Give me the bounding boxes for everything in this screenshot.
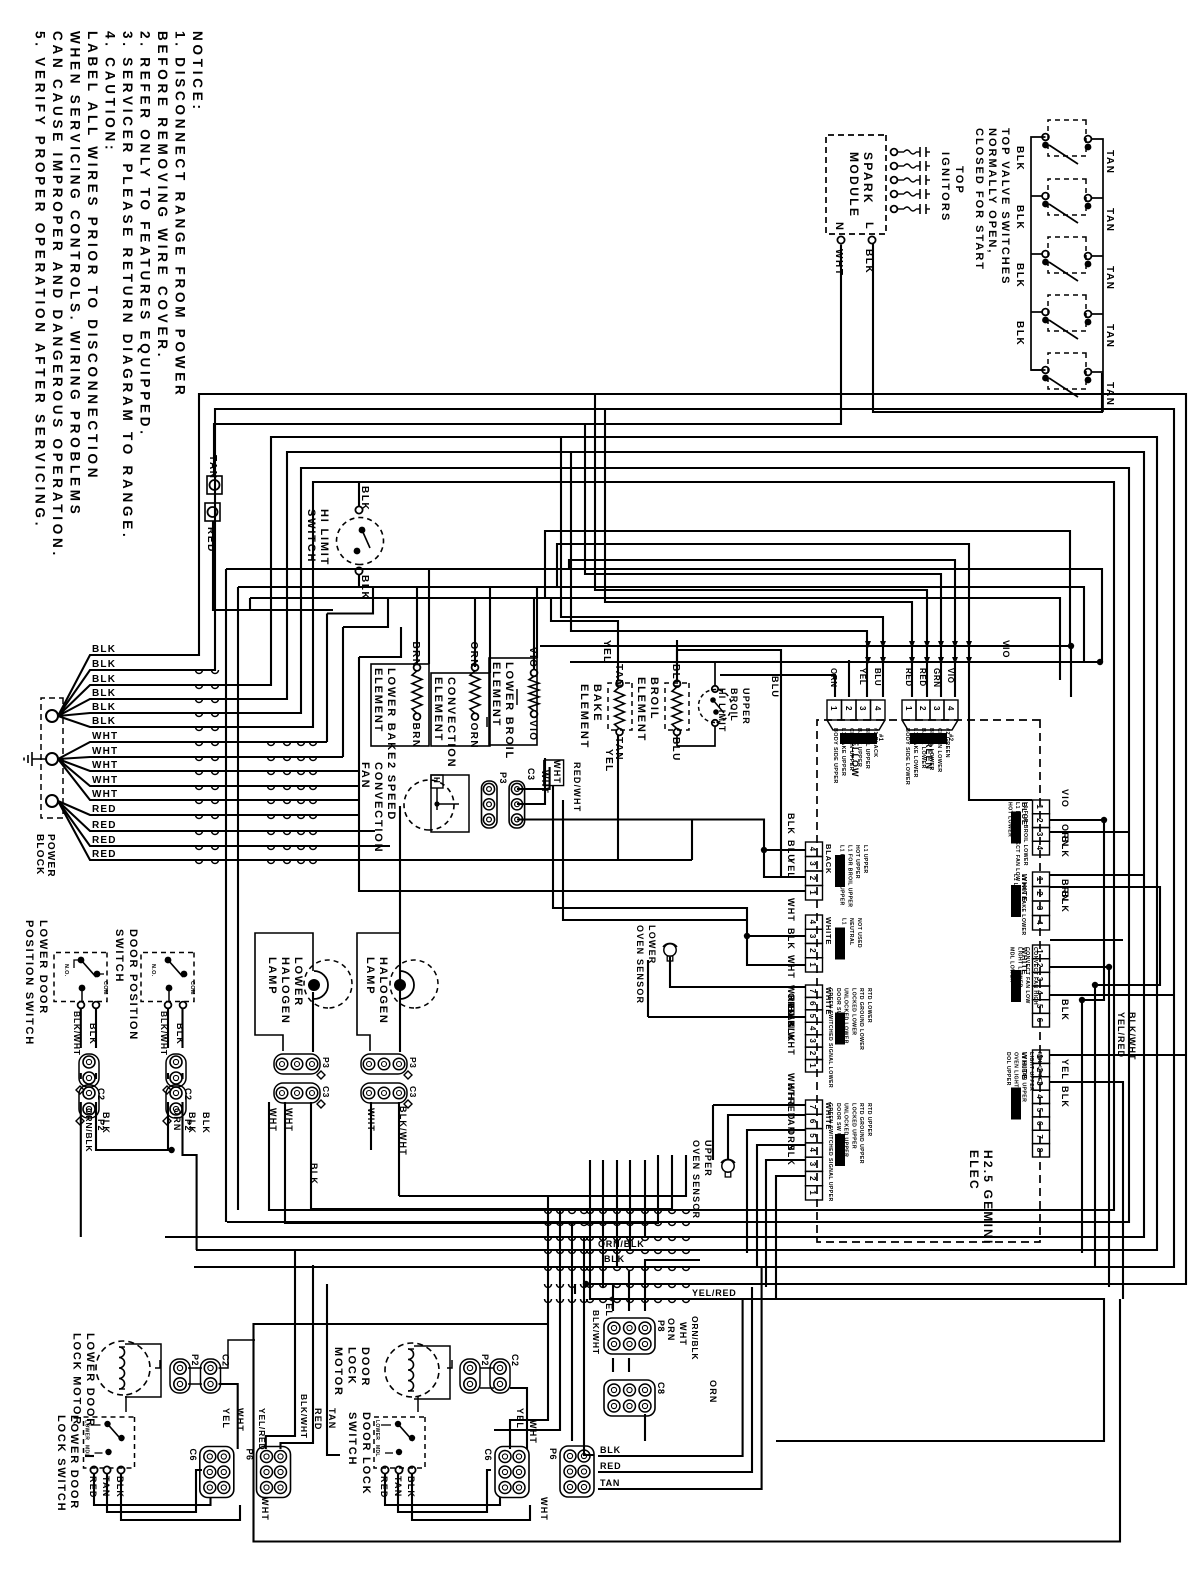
svg-text:SWITCH: SWITCH	[113, 929, 125, 983]
wire main loop 5	[110, 468, 1129, 1222]
connector P2 (lower door lock)	[170, 1359, 190, 1393]
svg-text:DOL UPPER: DOL UPPER	[1005, 1052, 1011, 1086]
svg-text:H2.5 GEMINI: H2.5 GEMINI	[981, 1150, 995, 1246]
svg-text:CONVECTION: CONVECTION	[445, 677, 457, 768]
svg-text:WHT: WHT	[366, 1108, 376, 1132]
connector J8 (WHITE 8-pin)	[1033, 1050, 1050, 1063]
svg-text:WHITE: WHITE	[824, 917, 833, 945]
svg-text:GRN: GRN	[932, 668, 941, 688]
svg-text:RED: RED	[92, 820, 117, 831]
svg-text:2: 2	[808, 1176, 817, 1181]
svg-text:L1 BAKE LOWER: L1 BAKE LOWER	[912, 728, 918, 778]
svg-text:WHT: WHT	[539, 1497, 549, 1521]
svg-text:HALOGEN: HALOGEN	[279, 957, 291, 1025]
connector P6	[560, 1446, 594, 1497]
svg-text:BLK/WHT: BLK/WHT	[398, 1106, 408, 1156]
svg-text:BLK: BLK	[1014, 263, 1025, 288]
svg-text:6: 6	[808, 1001, 817, 1006]
svg-text:WHT: WHT	[92, 746, 118, 757]
svg-text:BLK: BLK	[1060, 999, 1070, 1021]
svg-text:2. REFER ONLY TO FEATURES EQUI: 2. REFER ONLY TO FEATURES EQUIPPED.	[138, 31, 153, 438]
svg-text:1: 1	[808, 1190, 817, 1195]
svg-text:SWITCH: SWITCH	[346, 1412, 358, 1466]
svg-text:BLU: BLU	[770, 676, 780, 698]
svg-text:BLK: BLK	[359, 486, 370, 511]
svg-text:4: 4	[873, 706, 882, 711]
svg-text:WHT: WHT	[552, 760, 562, 784]
svg-text:LOWER DOOR: LOWER DOOR	[68, 1415, 80, 1510]
svg-text:OVEN SENSOR: OVEN SENSOR	[691, 1140, 701, 1219]
wire main loop 4	[110, 452, 1144, 1237]
lamp connector wires	[269, 1102, 307, 1210]
svg-text:2: 2	[808, 1051, 817, 1056]
svg-text:WHT: WHT	[260, 1497, 270, 1521]
lower halogen lamp	[255, 933, 313, 1051]
svg-text:WHEN SERVICING CONTROLS. WIRIN: WHEN SERVICING CONTROLS. WIRING PROBLEMS	[68, 31, 83, 518]
connector J3 (WHITE 7-pin)	[806, 985, 823, 997]
connector C3 (halogen)	[361, 1083, 407, 1103]
wire staircases into J1/J2	[691, 820, 693, 861]
svg-text:ELEC: ELEC	[967, 1150, 981, 1191]
svg-text:C6: C6	[188, 1449, 198, 1462]
svg-text:YEL: YEL	[604, 1296, 614, 1317]
svg-text:BLK/WHT: BLK/WHT	[1127, 1012, 1137, 1061]
connector P3 (fan)	[482, 781, 498, 828]
connector P2 (dps)	[166, 1085, 186, 1118]
wire main loop 1	[110, 394, 1186, 1284]
control board H2.5 GEMINI ELEC	[817, 720, 1040, 1242]
upper hi limit switch	[699, 690, 732, 723]
ground	[32, 758, 46, 760]
svg-text:1: 1	[808, 1063, 817, 1068]
svg-text:7: 7	[808, 1105, 817, 1110]
svg-text:RED: RED	[92, 804, 117, 815]
svg-text:L1: L1	[840, 918, 846, 925]
svg-text:DOOR POSITION: DOOR POSITION	[127, 929, 139, 1041]
wire BLU broil to J1	[677, 650, 781, 877]
svg-text:BLK: BLK	[92, 688, 116, 699]
svg-text:TOP: TOP	[953, 166, 965, 195]
svg-text:BLK: BLK	[1060, 836, 1070, 858]
svg-text:ORN: ORN	[666, 1318, 676, 1342]
svg-text:DOOR LOCK: DOOR LOCK	[360, 1412, 372, 1495]
door lock wires	[417, 1396, 419, 1412]
svg-text:#1 BLACK: #1 BLACK	[872, 728, 878, 758]
power block	[41, 698, 63, 818]
fan connector wires	[486, 717, 488, 727]
svg-text:BLK: BLK	[1060, 1086, 1070, 1108]
svg-text:CONVECTION: CONVECTION	[372, 762, 384, 853]
svg-text:LOCK SWITCH: LOCK SWITCH	[55, 1415, 67, 1512]
svg-text:MODULE: MODULE	[847, 152, 861, 218]
svg-text:YEL: YEL	[1060, 1059, 1070, 1080]
svg-text:BROIL: BROIL	[648, 677, 660, 720]
svg-text:1: 1	[808, 962, 817, 967]
svg-text:RED: RED	[92, 835, 117, 846]
svg-text:FAN: FAN	[359, 762, 371, 789]
svg-text:N.O.: N.O.	[63, 964, 69, 977]
wire main loop 3	[110, 437, 1157, 1250]
board right wires	[1050, 820, 1104, 1253]
svg-text:YEL/RED: YEL/RED	[692, 1288, 737, 1298]
svg-text:RTD GROUND UPPER: RTD GROUND UPPER	[858, 1103, 864, 1164]
svg-text:POWER: POWER	[45, 834, 56, 878]
svg-text:2: 2	[1035, 891, 1044, 896]
svg-text:CLEAN UPPER: CLEAN UPPER	[848, 728, 854, 771]
svg-text:2: 2	[844, 706, 853, 711]
hi limit switch	[337, 518, 384, 565]
svg-text:#2 GREEN: #2 GREEN	[944, 728, 950, 758]
lower door position switch	[54, 953, 107, 1002]
lower door lock motor	[96, 1341, 150, 1395]
svg-text:4: 4	[1035, 846, 1044, 851]
svg-text:IGNITORS: IGNITORS	[939, 152, 951, 223]
connector GREEN	[902, 700, 916, 720]
svg-text:SWITCH: SWITCH	[305, 509, 317, 563]
svg-text:4: 4	[946, 706, 955, 711]
svg-text:HOT LOWER: HOT LOWER	[1006, 802, 1012, 837]
svg-text:L1 FOR CONVECT FAN LOW: L1 FOR CONVECT FAN LOW	[1014, 802, 1020, 881]
svg-text:GREEN SWITCHED SIGNAL LOWER: GREEN SWITCHED SIGNAL LOWER	[827, 988, 833, 1088]
svg-text:BLK/WHT: BLK/WHT	[299, 1394, 309, 1439]
lower door lock switch terminals	[90, 1466, 97, 1473]
connector P3 (lower halogen)	[274, 1054, 320, 1074]
svg-text:GREEN SWITCHED SIGNAL UPPER: GREEN SWITCHED SIGNAL UPPER	[827, 1103, 833, 1202]
svg-text:MDL: MDL	[374, 1445, 380, 1457]
svg-text:YEL/RED: YEL/RED	[1116, 1012, 1126, 1058]
svg-text:4. CAUTION:: 4. CAUTION:	[103, 31, 118, 153]
svg-text:BLK: BLK	[92, 716, 116, 727]
svg-text:3. SERVICER PLEASE RETURN DIAG: 3. SERVICER PLEASE RETURN DIAGRAM TO RAN…	[120, 31, 135, 541]
svg-text:C3: C3	[408, 1086, 418, 1098]
svg-text:NOT USED: NOT USED	[856, 918, 862, 948]
connector J5 (BLUE 4-pin)	[1033, 800, 1050, 814]
svg-text:7: 7	[808, 989, 817, 994]
svg-text:UPPER: UPPER	[741, 688, 751, 725]
svg-text:UNLOCKED LOWER: UNLOCKED LOWER	[843, 988, 849, 1044]
svg-text:3: 3	[932, 706, 941, 711]
svg-text:ORN: ORN	[829, 668, 838, 688]
svg-text:3: 3	[858, 706, 867, 711]
wire crossing hops	[196, 670, 203, 674]
svg-text:TAN: TAN	[1104, 266, 1115, 291]
svg-text:C6: C6	[483, 1449, 493, 1462]
svg-text:YEL: YEL	[221, 1408, 231, 1429]
svg-text:TAN: TAN	[1104, 150, 1115, 175]
svg-text:YEL: YEL	[515, 1408, 525, 1429]
svg-text:7: 7	[1035, 1134, 1044, 1139]
svg-text:5: 5	[808, 1133, 817, 1138]
svg-text:COM: COM	[102, 981, 108, 995]
svg-text:HOT UPPER: HOT UPPER	[854, 845, 860, 879]
svg-text:HI LIMIT: HI LIMIT	[318, 509, 330, 566]
svg-text:WHT: WHT	[92, 760, 118, 771]
resistor: bake element	[608, 683, 632, 730]
svg-text:BROIL LOWER: BROIL LOWER	[928, 728, 934, 771]
svg-text:ELEMENT: ELEMENT	[578, 684, 590, 749]
svg-text:TAN: TAN	[613, 664, 624, 688]
board pin descriptions (fine print)	[840, 733, 877, 744]
svg-text:3: 3	[808, 934, 817, 939]
connector J2 (WHITE 4-pin)	[806, 915, 823, 929]
svg-text:BLK: BLK	[786, 813, 796, 835]
svg-text:ORN/BLK: ORN/BLK	[690, 1316, 700, 1360]
svg-text:LOCK: LOCK	[346, 1347, 358, 1385]
svg-text:P2: P2	[480, 1354, 490, 1366]
terminal RED	[205, 503, 220, 521]
wire element returns	[617, 735, 619, 860]
svg-text:2: 2	[1035, 818, 1044, 823]
svg-text:YEL: YEL	[786, 858, 796, 879]
svg-text:ORN: ORN	[172, 1108, 182, 1132]
svg-text:ELEMENT: ELEMENT	[372, 668, 384, 733]
svg-text:TAN: TAN	[207, 455, 218, 480]
svg-text:WHT: WHT	[92, 731, 118, 742]
lower door lock switch	[84, 1417, 135, 1468]
wire RED terminal to bus	[213, 521, 333, 610]
svg-text:MOTOR: MOTOR	[332, 1347, 344, 1397]
svg-text:1: 1	[808, 890, 817, 895]
svg-text:LOWER BAKE: LOWER BAKE	[385, 668, 397, 761]
connector C2 (lower dps)	[79, 1054, 99, 1087]
svg-text:BLK: BLK	[604, 1254, 625, 1264]
svg-text:3: 3	[1035, 832, 1044, 837]
svg-text:RED/WHT: RED/WHT	[572, 762, 582, 812]
svg-text:6: 6	[808, 1119, 817, 1124]
svg-text:BLK: BLK	[92, 644, 116, 655]
svg-text:L1 FOR BROIL UPPER: L1 FOR BROIL UPPER	[846, 845, 852, 907]
svg-text:ORN: ORN	[468, 723, 479, 749]
wire main loop 6	[110, 482, 1114, 1210]
svg-text:3: 3	[808, 1038, 817, 1043]
resistor: broil element	[665, 683, 689, 730]
svg-text:LIGHT UPPER: LIGHT UPPER	[1028, 1052, 1034, 1091]
svg-text:VIO: VIO	[946, 668, 955, 684]
halogen lamp	[357, 933, 400, 1051]
svg-text:LOWER: LOWER	[647, 925, 657, 965]
svg-text:P2: P2	[190, 1354, 200, 1366]
svg-text:4: 4	[808, 1148, 817, 1153]
svg-text:P3: P3	[498, 772, 508, 784]
svg-text:LOWER: LOWER	[374, 1420, 380, 1440]
svg-text:ORN/BLK: ORN/BLK	[84, 1108, 94, 1152]
svg-text:LIGHT LOWER: LIGHT LOWER	[1016, 947, 1022, 988]
svg-text:RED: RED	[600, 1461, 621, 1471]
resistor: convection element	[431, 673, 490, 746]
svg-text:N: N	[833, 222, 845, 230]
svg-text:RED: RED	[92, 849, 117, 860]
svg-text:L1 FAN BAKE LOWER: L1 FAN BAKE LOWER	[1020, 874, 1026, 936]
svg-text:BLOCK: BLOCK	[34, 834, 45, 876]
svg-text:BLU: BLU	[873, 668, 882, 686]
svg-text:BLU: BLU	[670, 737, 681, 762]
lower oven sensor	[664, 944, 676, 956]
door position switch	[141, 953, 194, 1002]
svg-text:NOTICE:: NOTICE:	[190, 31, 205, 113]
svg-text:1: 1	[829, 706, 838, 711]
svg-text:BROIL UPPER: BROIL UPPER	[864, 728, 870, 769]
svg-text:BLK: BLK	[786, 928, 796, 950]
door lock switch	[374, 1417, 425, 1468]
svg-text:OVEN LIGHT UPPER: OVEN LIGHT UPPER	[1013, 1052, 1019, 1109]
top ignitors (5 spark gaps)	[891, 149, 898, 156]
svg-text:MDL UPPER: MDL UPPER	[1036, 1052, 1042, 1086]
svg-text:CONVECT FAN HIGH: CONVECT FAN HIGH	[1032, 947, 1038, 1005]
svg-text:1: 1	[904, 706, 913, 711]
svg-text:VIO: VIO	[1001, 640, 1011, 659]
connector C2 (lower door lock)	[201, 1359, 221, 1393]
svg-text:LABEL ALL WIRES PRIOR TO DISCO: LABEL ALL WIRES PRIOR TO DISCONNECTION	[85, 31, 100, 481]
svg-text:L1 LOWER: L1 LOWER	[1012, 874, 1018, 904]
svg-text:BLK: BLK	[786, 1144, 796, 1166]
terminal TAN	[207, 476, 222, 494]
wire door lock enclosure loop	[254, 1299, 1121, 1542]
svg-text:BLU: BLU	[670, 664, 681, 689]
door lock feed wires	[510, 1196, 548, 1449]
svg-text:BODY SIDE UPPER: BODY SIDE UPPER	[832, 728, 838, 784]
wire hi limit right	[358, 575, 360, 587]
top valve switches NV1-NV2	[1048, 120, 1086, 156]
svg-text:1. DISCONNECT RANGE FROM POWER: 1. DISCONNECT RANGE FROM POWER	[173, 31, 188, 399]
svg-text:H: H	[432, 777, 441, 783]
svg-text:BODY SIDE LOWER: BODY SIDE LOWER	[904, 728, 910, 785]
svg-text:P6: P6	[548, 1448, 558, 1460]
connector C3 (lower halogen)	[274, 1083, 320, 1103]
svg-text:L: L	[863, 222, 875, 229]
svg-text:RED: RED	[918, 668, 927, 687]
svg-text:RTD UPPER: RTD UPPER	[866, 1103, 872, 1137]
svg-text:DOOR: DOOR	[359, 1347, 371, 1387]
svg-text:4: 4	[808, 920, 817, 925]
svg-text:BLK/WHT: BLK/WHT	[786, 1006, 796, 1056]
wire WHT spark module N to TAN terminal	[214, 245, 841, 476]
lower door lock wires	[125, 1396, 127, 1412]
svg-text:HI LIMIT: HI LIMIT	[717, 688, 727, 733]
svg-text:6: 6	[1035, 1018, 1044, 1023]
svg-text:BLK/WHT: BLK/WHT	[591, 1310, 601, 1355]
svg-text:BLACK: BLACK	[824, 844, 833, 874]
connector YELLOW	[827, 700, 842, 720]
svg-text:ORN: ORN	[708, 1380, 718, 1404]
svg-text:BRN: BRN	[410, 642, 421, 668]
svg-text:DOOR SW LOWER: DOOR SW LOWER	[835, 988, 841, 1039]
svg-text:BLK: BLK	[92, 674, 116, 685]
svg-text:YEL: YEL	[603, 749, 614, 773]
svg-text:L1 FOR BAKE UPPER: L1 FOR BAKE UPPER	[839, 845, 845, 906]
wire staircase links	[327, 587, 373, 614]
svg-text:3: 3	[808, 861, 817, 866]
svg-text:UNLOCKED UPPER: UNLOCKED UPPER	[843, 1103, 849, 1157]
svg-text:4: 4	[1035, 920, 1044, 925]
svg-text:C2: C2	[510, 1354, 520, 1367]
upper oven sensor	[722, 1160, 734, 1172]
bottom bus cluster	[399, 1155, 686, 1196]
connector J1 (BLACK 4-pin)	[806, 842, 823, 857]
door lock switch terminals	[381, 1466, 388, 1473]
svg-text:SPARK: SPARK	[861, 152, 875, 205]
svg-text:LOWER DOOR: LOWER DOOR	[37, 920, 49, 1015]
svg-text:YEL: YEL	[858, 668, 867, 685]
door position switch wires	[80, 1009, 82, 1049]
svg-text:5. VERIFY PROPER OPERATION AFT: 5. VERIFY PROPER OPERATION AFTER SERVICI…	[33, 31, 48, 529]
svg-text:YEL: YEL	[601, 640, 612, 664]
svg-text:CAN CAUSE IMPROPER AND DANGERO: CAN CAUSE IMPROPER AND DANGEROUS OPERATI…	[50, 31, 65, 559]
svg-text:5: 5	[808, 1014, 817, 1019]
svg-text:3: 3	[808, 1162, 817, 1167]
wire main loop 2	[110, 409, 1174, 1267]
svg-text:1: 1	[1035, 877, 1044, 882]
svg-text:WHT: WHT	[678, 1322, 688, 1346]
svg-text:POSITION SWITCH: POSITION SWITCH	[23, 920, 35, 1046]
svg-text:MDL LOWER: MDL LOWER	[1009, 947, 1015, 983]
svg-text:BLK: BLK	[101, 1112, 111, 1134]
svg-text:VIO: VIO	[1060, 789, 1070, 808]
svg-text:TAN: TAN	[1104, 208, 1115, 233]
svg-text:BLK: BLK	[92, 659, 116, 670]
svg-text:TAN: TAN	[1104, 324, 1115, 349]
svg-text:BEFORE REMOVING WIRE COVER.: BEFORE REMOVING WIRE COVER.	[155, 31, 170, 360]
svg-text:BAKE: BAKE	[591, 684, 603, 722]
svg-text:WHT: WHT	[284, 1108, 294, 1132]
svg-text:NEUTRAL: NEUTRAL	[848, 918, 854, 946]
svg-text:NORMALLY OPEN,: NORMALLY OPEN,	[986, 128, 998, 254]
svg-text:YEL/RED: YEL/RED	[257, 1408, 267, 1450]
wire element feeders	[226, 569, 1102, 662]
svg-text:BLK: BLK	[600, 1445, 621, 1455]
resistor: lower bake element	[371, 664, 429, 746]
svg-text:5: 5	[1035, 1108, 1044, 1113]
svg-text:8: 8	[1035, 1148, 1044, 1153]
svg-text:BLK: BLK	[1014, 205, 1025, 230]
wire hi limit left	[358, 482, 360, 507]
wires into YELLOW/GREEN connectors	[605, 409, 912, 697]
bottom connector wires	[612, 1284, 614, 1311]
wire WHT bus runs	[110, 741, 327, 743]
door lock motor	[385, 1343, 439, 1397]
svg-text:ORN: ORN	[468, 642, 479, 668]
svg-text:BAKE LOWER: BAKE LOWER	[920, 728, 926, 769]
wire BLK spark module L to valve switches	[873, 244, 1102, 412]
connector J7 (WHITE 6-pin)	[1033, 945, 1050, 959]
svg-text:C8: C8	[656, 1382, 666, 1395]
svg-text:L1 FOR BROIL LOWER: L1 FOR BROIL LOWER	[1022, 802, 1028, 866]
svg-text:2: 2	[918, 706, 927, 711]
svg-text:TAN: TAN	[327, 1408, 337, 1429]
svg-text:WHT: WHT	[92, 789, 118, 800]
svg-text:LOWER: LOWER	[292, 957, 304, 1007]
svg-text:RTD LOWER: RTD LOWER	[866, 988, 872, 1023]
svg-text:L1 BAKE UPPER: L1 BAKE UPPER	[840, 728, 846, 776]
svg-text:ELEMENT: ELEMENT	[490, 662, 502, 727]
connector J6 (WHITE 4-pin)	[1033, 872, 1050, 887]
svg-text:4: 4	[1035, 1094, 1044, 1099]
svg-text:WHT: WHT	[235, 1408, 245, 1432]
svg-text:UPPER: UPPER	[703, 1140, 713, 1177]
wire RED bus runs	[110, 814, 359, 816]
svg-text:WHT: WHT	[786, 955, 796, 979]
svg-text:P8: P8	[656, 1320, 666, 1332]
svg-text:DOOR SW UPPER: DOOR SW UPPER	[835, 1103, 841, 1153]
connector P2 (door lock)	[460, 1359, 480, 1393]
svg-text:BLK: BLK	[201, 1112, 211, 1134]
svg-text:4: 4	[808, 847, 817, 852]
svg-text:WHT: WHT	[528, 1420, 538, 1444]
svg-text:1: 1	[1035, 804, 1044, 809]
connector P8	[604, 1318, 655, 1354]
power block lead fan-out with labels	[58, 655, 110, 716]
svg-text:ELEMENT: ELEMENT	[635, 677, 647, 742]
connector J4 (WHITE 7-pin)	[806, 1100, 823, 1114]
